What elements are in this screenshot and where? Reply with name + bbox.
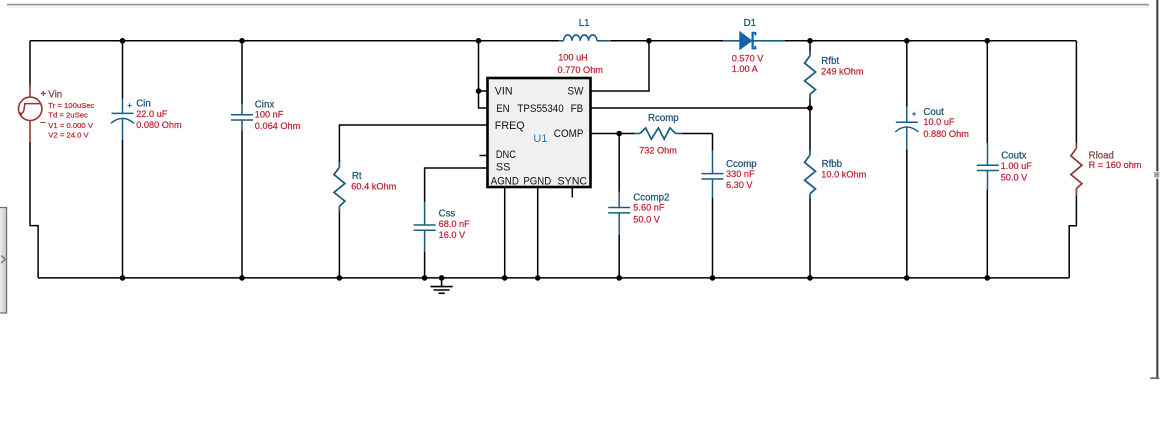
svg-text:+: + [912, 109, 917, 118]
svg-text:6.30 V: 6.30 V [726, 180, 753, 190]
wire ss to Css [425, 168, 487, 203]
svg-text:22.0 uF: 22.0 uF [136, 109, 168, 119]
svg-text:0.770 Ohm: 0.770 Ohm [558, 65, 604, 75]
wire coutx branch [986, 41, 988, 144]
IC U1 TPS55340 [488, 78, 591, 187]
svg-text:50.0 V: 50.0 V [1001, 172, 1028, 182]
svg-text:100 uH: 100 uH [558, 53, 588, 63]
svg-text:50.0 V: 50.0 V [633, 215, 660, 225]
wire fb net [591, 107, 810, 109]
labels Rfbb name + value [821, 159, 866, 180]
svg-text:0.080 Ohm: 0.080 Ohm [136, 120, 182, 130]
junction dots top rail [120, 38, 990, 44]
collapsed left panel [0, 208, 7, 314]
svg-text:Css: Css [439, 209, 456, 220]
wire sync stub [571, 188, 573, 198]
window chrome right border [1156, 0, 1158, 171]
capacitor Ccomp [702, 150, 724, 198]
svg-text:+: + [127, 101, 132, 110]
wire freq to Rt [339, 125, 487, 163]
capacitor Css [414, 202, 436, 252]
labels Coutx name + values [1001, 151, 1033, 183]
labels Cinx name + values [255, 99, 301, 130]
svg-text:732 Ohm: 732 Ohm [639, 146, 677, 156]
labels L1 name + values [558, 18, 604, 75]
svg-text:330 nF: 330 nF [726, 169, 755, 179]
diode D1 (schottky) [723, 32, 785, 50]
node FB junction [807, 105, 813, 111]
svg-text:16.0 V: 16.0 V [439, 230, 466, 240]
capacitor Cin [111, 98, 134, 140]
resistor Rt [334, 162, 345, 212]
svg-text:FB: FB [571, 103, 584, 115]
wire cinx branch [241, 41, 243, 105]
labels Rload name + value [1089, 150, 1142, 170]
svg-text:Td = 2uSec: Td = 2uSec [48, 111, 88, 120]
window chrome top divider [7, 4, 1149, 6]
resistor Rfbb [805, 150, 816, 199]
wire sw riser [591, 41, 649, 91]
svg-text:1.00 uF: 1.00 uF [1001, 161, 1033, 171]
svg-text:L1: L1 [579, 18, 590, 29]
wire vin branch [29, 41, 31, 86]
resistor Rload [1071, 143, 1082, 196]
svg-text:5.60 nF: 5.60 nF [633, 203, 665, 213]
wire comp net [591, 133, 634, 135]
labels Rfbt name + value [821, 56, 864, 77]
svg-text:1.00 A: 1.00 A [732, 64, 759, 74]
svg-text:COMP: COMP [554, 128, 584, 140]
svg-text:VIN: VIN [495, 86, 513, 98]
wire bottom rail [38, 277, 1069, 279]
svg-text:AGND: AGND [491, 175, 519, 187]
svg-text:Tr = 100uSec: Tr = 100uSec [48, 101, 94, 110]
svg-text:249 kOhm: 249 kOhm [821, 67, 864, 77]
wire cin branch [122, 41, 124, 99]
svg-text:SS: SS [496, 161, 511, 173]
svg-text:0.064 Ohm: 0.064 Ohm [255, 121, 301, 131]
svg-text:D1: D1 [744, 18, 756, 29]
svg-text:SW: SW [568, 86, 584, 98]
wire agnd [504, 188, 506, 278]
labels D1 name + values [732, 18, 765, 74]
labels Css name + values [439, 209, 471, 241]
wire dnc stub [480, 155, 488, 157]
wire top rail [30, 40, 560, 42]
svg-text:TPS55340: TPS55340 [517, 103, 563, 115]
resistor Rcomp [634, 128, 682, 139]
svg-text:PGND: PGND [523, 175, 551, 187]
wire vin/en riser [479, 41, 488, 108]
voltage source Vin [19, 84, 42, 142]
capacitor Ccomp2 [608, 192, 630, 236]
svg-text:10.0 uF: 10.0 uF [923, 117, 955, 127]
wire ccomp2 branch [618, 134, 620, 194]
svg-text:R = 160 ohm: R = 160 ohm [1089, 160, 1142, 170]
wire pgnd [537, 188, 539, 278]
wire cout branch [906, 41, 908, 107]
svg-text:–: – [40, 116, 46, 128]
svg-text:100 nF: 100 nF [255, 110, 284, 120]
svg-text:Rfbb: Rfbb [822, 159, 842, 170]
capacitor Coutx [977, 143, 999, 190]
svg-text:Rt: Rt [352, 171, 362, 182]
junction dots bottom rail [120, 275, 990, 281]
resistor Rfbt [805, 51, 816, 99]
svg-text:0.570 V: 0.570 V [732, 54, 765, 64]
svg-text:U1: U1 [533, 133, 547, 145]
svg-text:60.4 kOhm: 60.4 kOhm [351, 182, 396, 192]
svg-text:+: + [40, 88, 46, 100]
svg-text:V2 = 24.0 V: V2 = 24.0 V [48, 130, 89, 139]
svg-text:Cin: Cin [136, 99, 151, 110]
svg-text:10.0 kOhm: 10.0 kOhm [821, 169, 866, 179]
wire ccomp branch [712, 134, 714, 151]
capacitor Cout [895, 106, 918, 150]
labels Ccomp2 name + values [633, 193, 669, 225]
svg-text:Rcomp: Rcomp [648, 113, 679, 124]
wire vin pin stub [479, 90, 488, 92]
ground [431, 278, 453, 293]
svg-text:DNC: DNC [496, 149, 516, 161]
svg-text:68.0 nF: 68.0 nF [439, 219, 471, 229]
svg-text:EN: EN [496, 103, 509, 115]
svg-text:V1 = 0.000 V: V1 = 0.000 V [48, 121, 94, 130]
svg-text:Rfbt: Rfbt [821, 56, 839, 67]
labels Rt name + value [351, 171, 396, 192]
labels Ccomp name + values [726, 159, 757, 190]
labels Cout name + values [912, 107, 969, 139]
labels Vin name + parameters [40, 88, 95, 139]
labels Cin name + values [127, 99, 182, 131]
svg-text:Vin: Vin [48, 90, 62, 101]
node VIN pin junction [476, 88, 482, 94]
svg-text:SYNC: SYNC [558, 175, 588, 187]
wire rfb branch [809, 41, 811, 52]
node COMP junction [616, 131, 622, 137]
capacitor Cinx [231, 104, 253, 131]
svg-text:FREQ: FREQ [495, 120, 525, 132]
wire rload branch [1075, 41, 1077, 144]
inductor L1 [559, 35, 611, 41]
svg-text:0.880 Ohm: 0.880 Ohm [923, 129, 969, 139]
svg-text:Coutx: Coutx [1001, 151, 1026, 162]
labels Rcomp name + value [639, 113, 679, 155]
